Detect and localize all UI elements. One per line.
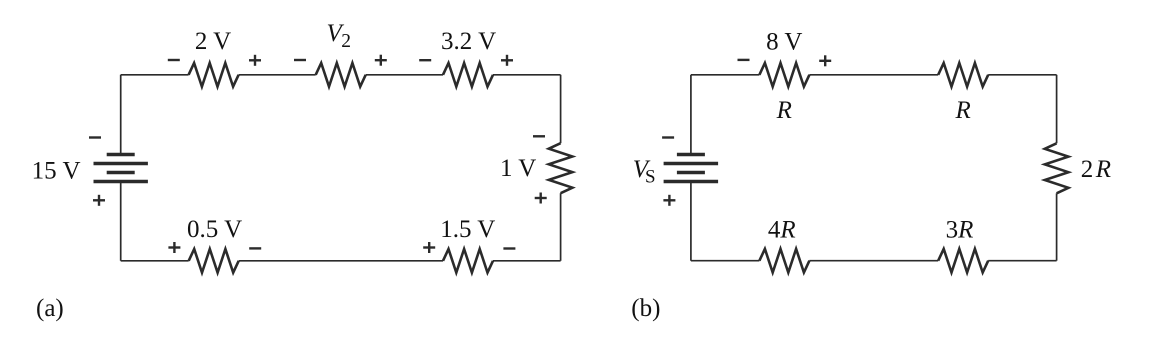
svg-text:(a): (a) [36, 295, 64, 322]
svg-text:2 V: 2 V [195, 28, 231, 55]
svg-text:15 V: 15 V [32, 158, 81, 185]
svg-text:VS: VS [633, 156, 656, 188]
svg-text:8 V: 8 V [766, 28, 802, 55]
svg-text:3.2 V: 3.2 V [441, 28, 496, 55]
svg-text:1 V: 1 V [500, 155, 536, 182]
svg-text:V2: V2 [327, 20, 352, 52]
svg-text:0.5 V: 0.5 V [187, 216, 242, 243]
svg-text:3R: 3R [946, 217, 974, 244]
svg-text:R: R [776, 97, 792, 124]
svg-text:(b): (b) [631, 295, 660, 322]
svg-text:R: R [955, 97, 971, 124]
svg-text:2R: 2R [1081, 156, 1111, 183]
svg-text:1.5 V: 1.5 V [440, 216, 495, 243]
svg-text:4R: 4R [768, 217, 796, 244]
